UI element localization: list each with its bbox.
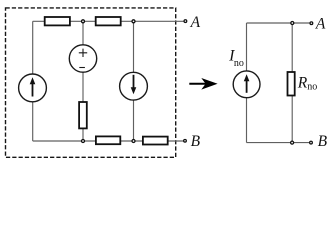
terminal B right	[310, 141, 313, 144]
wire right branch right circuit	[291, 23, 293, 143]
resistor R2 top-right	[96, 17, 121, 25]
wire bottom rail left circuit	[33, 140, 185, 142]
node top middle	[82, 20, 85, 23]
current source Ino	[233, 71, 260, 98]
svg-text:no: no	[307, 82, 317, 93]
current source I2 (down arrow)	[120, 72, 148, 100]
wire top rail right circuit	[247, 22, 310, 24]
dashed box	[6, 8, 176, 157]
terminal A right	[310, 22, 313, 25]
resistor R4 bottom-right	[143, 137, 168, 145]
wire left branch	[32, 21, 34, 141]
svg-text:A: A	[315, 15, 326, 32]
wire top rail left circuit	[33, 20, 185, 22]
node top right	[132, 20, 135, 23]
wire bottom rail right circuit	[247, 142, 310, 144]
node top right circuit	[291, 22, 294, 25]
resistor R5 vertical middle	[79, 102, 87, 128]
current source I1 (up arrow)	[19, 74, 47, 102]
wire left branch right circuit	[246, 23, 248, 143]
resistor R3 bottom-left	[96, 136, 120, 144]
wire middle branch	[82, 21, 84, 141]
voltage source V1	[69, 45, 96, 72]
wire right branch	[133, 21, 135, 141]
node bottom right circuit	[291, 141, 294, 144]
terminal A left	[184, 20, 187, 23]
svg-text:R: R	[297, 74, 308, 91]
svg-text:A: A	[190, 14, 201, 31]
svg-text:no: no	[234, 58, 244, 69]
arrow (implies)	[189, 83, 206, 85]
resistor R1 top-left	[45, 17, 70, 25]
terminal B left	[184, 139, 187, 142]
svg-text:B: B	[191, 133, 201, 150]
node bottom right	[132, 140, 135, 143]
resistor Rno	[288, 72, 295, 96]
svg-text:B: B	[318, 133, 328, 150]
node bottom middle	[82, 140, 85, 143]
